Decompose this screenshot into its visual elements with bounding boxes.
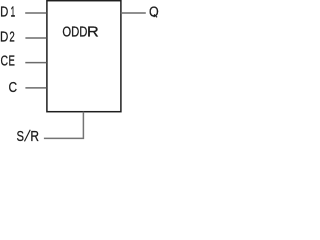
wire D2 <box>25 37 46 39</box>
svg-text:2: 2 <box>9 28 14 45</box>
svg-text:C: C <box>9 79 18 96</box>
wire C <box>25 87 46 89</box>
wire Q <box>121 12 146 14</box>
svg-text:1: 1 <box>11 4 16 21</box>
svg-text:D: D <box>0 28 8 45</box>
svg-text:R: R <box>87 23 99 40</box>
wire D1 <box>25 12 46 14</box>
svg-text:D: D <box>0 4 8 21</box>
wire CE <box>25 62 46 64</box>
svg-text:E: E <box>8 53 14 70</box>
svg-text:S: S <box>16 128 24 143</box>
svg-text:R: R <box>30 128 39 143</box>
svg-text:C: C <box>0 53 8 70</box>
wire S/R <box>44 112 84 139</box>
svg-text:ODD: ODD <box>62 23 87 40</box>
ODDR block U1 <box>47 1 121 112</box>
